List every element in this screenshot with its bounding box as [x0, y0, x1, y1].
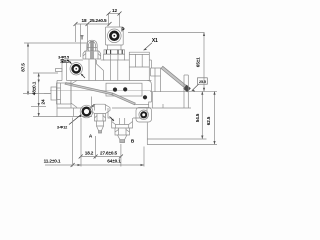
- nozzle B shelf: [108, 108, 147, 118]
- body right chamfer corner: [148, 81, 152, 85]
- dimension 12 top: [107, 12, 122, 27]
- bottom dims row2: [45, 163, 144, 167]
- port P neck and nut: [104, 45, 125, 60]
- right post: [184, 75, 188, 108]
- svg-text:24: 24: [40, 99, 45, 104]
- svg-text:18: 18: [82, 18, 87, 23]
- right dim 65±1: [203, 33, 205, 92]
- bolt dot 3: [143, 95, 147, 99]
- diagonal fitting strut: [161, 66, 191, 92]
- svg-text:65±1: 65±1: [196, 57, 201, 67]
- body centerline: [50, 90, 151, 92]
- bolt dot 1: [113, 88, 117, 92]
- port T nut: [83, 51, 101, 59]
- main body slab: [57, 81, 151, 109]
- X1 mount block: [129, 52, 151, 80]
- right bracket with pin: [134, 105, 152, 123]
- dimension 18 / 25.2±0.5 top: [74, 22, 112, 57]
- hole 3-phi5.5 ring: [68, 60, 86, 79]
- svg-text:12: 12: [112, 8, 117, 13]
- svg-text:25.2±0.5: 25.2±0.5: [89, 18, 107, 23]
- svg-text:18.2: 18.2: [85, 151, 94, 156]
- label box right 2.5: [192, 78, 208, 92]
- nozzle A: [90, 104, 110, 133]
- svg-text:T: T: [81, 36, 84, 42]
- bolt dot 2: [123, 87, 127, 91]
- svg-text:11.2±0.1: 11.2±0.1: [44, 159, 61, 164]
- svg-text:48±0.1: 48±0.1: [31, 81, 36, 95]
- svg-text:X1: X1: [152, 38, 158, 44]
- diagonal lever: [65, 83, 135, 105]
- svg-text:深8.5: 深8.5: [60, 59, 69, 64]
- top platform: [56, 59, 130, 81]
- hole 3-phi12 ring: [69, 104, 95, 124]
- svg-text:25.5: 25.5: [199, 80, 206, 84]
- svg-text:27.6±0.5: 27.6±0.5: [100, 151, 118, 156]
- left boss: [44, 81, 77, 108]
- svg-text:64±0.1: 64±0.1: [107, 159, 121, 164]
- svg-text:54.5: 54.5: [195, 113, 200, 122]
- right lower step: [152, 92, 191, 108]
- svg-text:3-Φ12: 3-Φ12: [57, 124, 68, 129]
- nozzle B: [112, 118, 133, 143]
- port T dome: [87, 40, 97, 51]
- bottom extension lines: [73, 118, 148, 167]
- right dim 62.5: [147, 91, 217, 144]
- left dim 87.5: [23, 43, 87, 95]
- label X1 leader: [144, 43, 152, 51]
- right dim 54.5: [147, 91, 206, 139]
- right ext mid: [150, 91, 217, 93]
- left dim 48 / 24: [31, 73, 58, 117]
- svg-text:62.5: 62.5: [206, 116, 211, 125]
- base plate: [57, 108, 92, 117]
- svg-text:87.5: 87.5: [20, 63, 25, 72]
- section arrow small: [110, 117, 115, 122]
- port P flange: [105, 27, 123, 45]
- bottom dims row1: [79, 155, 123, 159]
- extension line top right (65 dim): [128, 32, 205, 34]
- right step block: [151, 68, 161, 92]
